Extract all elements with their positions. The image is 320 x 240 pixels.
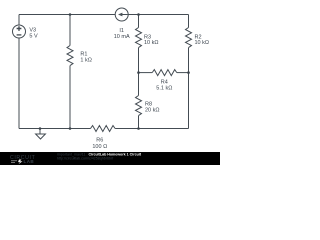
resistor R6 zigzag xyxy=(91,126,116,132)
wire middle branch below R8 xyxy=(138,116,140,129)
wire left rail upper xyxy=(18,15,20,26)
svg-text:100 Ω: 100 Ω xyxy=(92,144,107,150)
ground triangle xyxy=(36,134,46,139)
wire R1 branch lower xyxy=(69,66,71,129)
wire middle branch between R3 and R8 xyxy=(138,48,140,96)
wire right rail above R2 xyxy=(188,15,190,28)
wire left rail lower xyxy=(18,38,20,129)
wire bottom left of R6 xyxy=(19,128,91,130)
wire bottom right of R6 xyxy=(115,128,188,130)
svg-text:LAB: LAB xyxy=(24,159,35,164)
svg-text:1 kΩ: 1 kΩ xyxy=(80,58,91,64)
I1 arrowhead xyxy=(118,13,122,17)
resistor R2 zigzag xyxy=(186,28,192,48)
wire middle branch above R3 xyxy=(138,15,140,28)
wire R4 right lead xyxy=(177,72,189,74)
svg-text:R6: R6 xyxy=(96,138,103,144)
wire right rail below R2 xyxy=(188,48,190,129)
svg-text:5.1 kΩ: 5.1 kΩ xyxy=(156,86,172,92)
junction node at middle branch top xyxy=(137,13,140,16)
junction node at ground xyxy=(39,127,42,130)
svg-text:R1: R1 xyxy=(80,52,87,58)
voltage source V3 circle xyxy=(13,25,26,38)
svg-text:http://circuitlab.com/c/4258qh: http://circuitlab.com/c/4258qh6r6brf xyxy=(57,156,113,160)
wire top: I1 right to right rail xyxy=(128,14,188,16)
resistor R3 zigzag xyxy=(136,28,142,48)
junction node R4 right xyxy=(187,71,190,74)
svg-text:5 V: 5 V xyxy=(29,33,38,39)
svg-text:20 kΩ: 20 kΩ xyxy=(145,108,160,114)
resistor R4 zigzag xyxy=(152,70,177,76)
V3 plus sign xyxy=(17,26,22,31)
V3 minus sign xyxy=(17,34,22,36)
wire R4 left lead xyxy=(139,72,153,74)
junction node at middle branch bottom xyxy=(137,127,140,130)
wire R1 branch upper xyxy=(69,15,71,46)
svg-text:10 kΩ: 10 kΩ xyxy=(144,40,159,46)
svg-text:10 kΩ: 10 kΩ xyxy=(195,40,210,46)
junction node at R1 bottom xyxy=(69,127,72,130)
junction node R4 left xyxy=(137,71,140,74)
svg-text:10 mA: 10 mA xyxy=(114,34,130,40)
I1 arrow shaft xyxy=(122,14,128,16)
current source I1 circle xyxy=(115,8,128,21)
resistor R8 zigzag xyxy=(136,96,142,116)
svg-text:R8: R8 xyxy=(145,102,152,108)
footer bar xyxy=(0,152,220,165)
CircuitLab logo LAB line xyxy=(11,161,17,163)
junction node at R1 top xyxy=(69,13,72,16)
CircuitLab logo bolt xyxy=(18,160,23,165)
wire top: V3 node to I1 left xyxy=(19,14,115,16)
resistor R1 zigzag xyxy=(67,46,73,66)
ground stem xyxy=(39,129,41,135)
